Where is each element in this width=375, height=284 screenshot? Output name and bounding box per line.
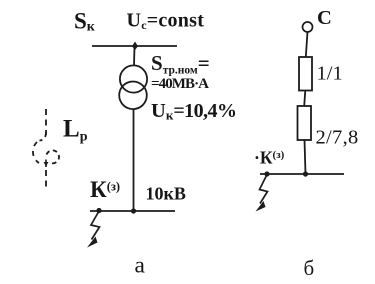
junction dot on top bus	[132, 42, 138, 51]
transformer T1 winding 2	[119, 82, 147, 110]
transformer T1 winding 1	[120, 65, 147, 92]
wire bottom 10kV bus	[90, 210, 175, 212]
wire X1 to X2	[304, 91, 305, 107]
reactor Lp inner curl	[47, 150, 60, 163]
svg-text:C: C	[317, 7, 332, 29]
svg-text:б: б	[304, 256, 315, 280]
junction dot X2 to bus	[303, 171, 308, 176]
wire from bus to transformer	[133, 46, 136, 66]
svg-text:1/1: 1/1	[317, 63, 343, 85]
junction dot transformer to bus	[131, 208, 136, 213]
svg-text:а: а	[135, 253, 146, 279]
wire C to X1	[306, 32, 308, 57]
wire X2 to bus	[305, 140, 306, 174]
svg-text:2/7,8: 2/7,8	[316, 127, 359, 149]
reactor Lp dashed lead bottom	[45, 170, 47, 188]
junction dot fault point right	[264, 171, 269, 176]
generator node C circle	[303, 22, 313, 32]
impedance X2 box	[298, 106, 312, 140]
reactor Lp outer arc	[33, 142, 39, 163]
fault arrow right (lightning)	[260, 175, 268, 204]
reactor Lp center arrow	[45, 160, 47, 168]
junction dot fault point left	[96, 208, 101, 213]
wire top bus	[92, 45, 177, 47]
wire right bus	[260, 173, 344, 175]
wire from transformer to 10kV bus	[133, 109, 135, 211]
svg-text:=40МВ·А: =40МВ·А	[151, 76, 209, 92]
reactor Lp hook	[40, 132, 47, 141]
impedance X1 box	[299, 57, 312, 91]
svg-text:Uк=10,4%: Uк=10,4%	[151, 100, 236, 123]
fault arrow left (lightning)	[91, 211, 100, 240]
svg-text:Uc=const: Uc=const	[127, 10, 205, 33]
reactor Lp dashed lead top	[45, 109, 47, 135]
svg-text:10кВ: 10кВ	[146, 184, 186, 204]
